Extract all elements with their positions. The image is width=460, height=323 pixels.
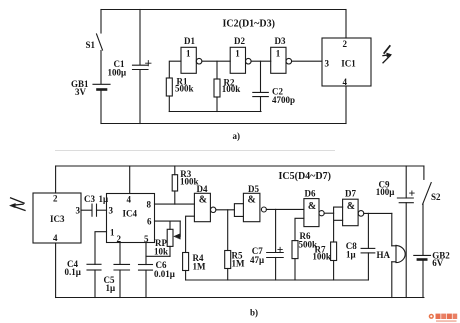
svg-text:3: 3 (325, 59, 330, 69)
svg-text:47μ: 47μ (250, 255, 264, 265)
resistor R3 (172, 166, 177, 204)
svg-text:&: & (248, 194, 256, 205)
capacitor C7 (267, 209, 284, 280)
svg-text:100k: 100k (312, 252, 331, 262)
antenna receive symbol (10, 198, 25, 211)
wire IC4 pin8 to D4 (155, 203, 195, 205)
svg-text:6: 6 (147, 217, 152, 227)
wire D2 out to D3 (251, 60, 271, 62)
inverter D1 (181, 47, 202, 73)
resistor R5 (225, 210, 231, 280)
resistor R2 (214, 61, 220, 111)
wire D1 out to D2 (202, 60, 230, 62)
svg-text:HA: HA (377, 250, 391, 260)
wire D1 input (169, 61, 181, 78)
svg-text:4: 4 (127, 195, 132, 205)
svg-text:a): a) (233, 131, 241, 141)
svg-text:10k: 10k (154, 247, 168, 257)
wire D7 out (364, 212, 392, 214)
svg-text:4: 4 (343, 77, 348, 87)
nand D6 (304, 199, 324, 227)
capacitor C3 (92, 204, 107, 216)
wire IC4 pin4 (129, 166, 131, 194)
wire inner bottom b (186, 279, 369, 281)
svg-text:0.1μ: 0.1μ (65, 267, 81, 277)
svg-text:1: 1 (110, 227, 115, 237)
nand D4 (194, 193, 216, 221)
resistor R7 (331, 222, 337, 280)
wire RP bottom jog (146, 255, 170, 257)
capacitor C2 (253, 61, 268, 111)
switch S2 (423, 166, 432, 255)
antenna transmit symbol (383, 46, 392, 63)
svg-text:D7: D7 (345, 189, 356, 199)
IC4 box (107, 194, 155, 243)
svg-text:D3: D3 (275, 36, 286, 46)
svg-text:3: 3 (76, 206, 81, 216)
svg-text:100μ: 100μ (376, 187, 395, 197)
battery GB2 (414, 255, 431, 297)
svg-text:C3: C3 (84, 194, 95, 204)
svg-text:1M: 1M (232, 259, 246, 269)
svg-text:&: & (347, 201, 355, 212)
svg-text:2: 2 (53, 194, 58, 204)
wire D3 out to IC1 pin3 (292, 60, 322, 62)
svg-text:0.01μ: 0.01μ (154, 269, 175, 279)
resistor R1 (166, 78, 172, 112)
svg-text:500k: 500k (175, 84, 194, 94)
svg-text:2: 2 (343, 39, 348, 49)
wire IC4 pin2 (119, 243, 121, 265)
svg-text:6V: 6V (432, 258, 444, 268)
capacitor C6 (139, 265, 153, 298)
potentiometer RP (167, 221, 180, 256)
svg-text:D4: D4 (197, 184, 208, 194)
wire top rail a (101, 9, 346, 11)
svg-text:D2: D2 (234, 36, 245, 46)
nand D5 (243, 193, 266, 221)
capacitor C8 (361, 213, 375, 280)
inverter D3 (271, 47, 292, 73)
svg-text:100μ: 100μ (108, 68, 127, 78)
svg-text:5: 5 (144, 234, 149, 244)
svg-text:&: & (199, 194, 207, 205)
svg-text:D5: D5 (248, 184, 259, 194)
svg-text:S1: S1 (86, 40, 96, 50)
svg-text:100k: 100k (222, 84, 241, 94)
svg-text:8: 8 (147, 200, 152, 210)
svg-text:S2: S2 (431, 192, 441, 202)
svg-text:1: 1 (235, 49, 240, 59)
svg-text:IC3: IC3 (50, 214, 65, 224)
wire IC3 pin4 (55, 243, 57, 298)
svg-text:3V: 3V (75, 87, 87, 97)
wire IC1 pin2 (345, 10, 347, 39)
wire bottom rail a (101, 123, 346, 125)
capacitor C5 (114, 264, 130, 297)
wire IC4 pin6 (155, 220, 181, 222)
svg-text:1μ: 1μ (106, 283, 116, 293)
svg-text:3: 3 (109, 206, 114, 216)
svg-text:4700p: 4700p (272, 95, 295, 105)
IC3 box (33, 193, 81, 243)
capacitor C9 (397, 166, 414, 298)
battery GB1 (93, 84, 110, 123)
capacitor C4 (87, 264, 101, 297)
svg-text:IC4: IC4 (123, 209, 138, 219)
svg-text:1M: 1M (193, 262, 207, 272)
svg-text:&: & (308, 201, 316, 212)
wire IC4 pin5 (145, 243, 147, 265)
watermark logo (429, 314, 458, 322)
wire D4 out (216, 209, 235, 211)
capacitor C1 (133, 10, 152, 124)
IC1 box (322, 38, 371, 86)
wire IC1 pin4 (345, 86, 347, 124)
svg-text:2: 2 (117, 234, 122, 244)
switch S1 (97, 34, 103, 84)
wire IC3 pin3 stub (81, 209, 92, 211)
svg-text:4: 4 (53, 233, 58, 243)
svg-text:1μ: 1μ (99, 194, 109, 204)
wire D4 lower input to R4 (186, 216, 195, 252)
node D7 input tie (334, 207, 343, 222)
wire IC3 pin2 (55, 166, 57, 193)
wire inner bottom a (169, 111, 261, 113)
node D5 input tie (234, 204, 243, 217)
svg-text:IC5(D4~D7): IC5(D4~D7) (279, 171, 331, 182)
svg-text:1: 1 (276, 49, 281, 59)
nand D7 (343, 199, 364, 226)
wire top rail b (56, 165, 424, 167)
resistor R6 (292, 241, 298, 280)
wire D6 lower input to R6 (295, 218, 304, 240)
svg-text:1: 1 (186, 49, 191, 59)
inverter D2 (230, 47, 251, 73)
resistor R4 (183, 253, 189, 281)
wire IC4 pin1 to C4 (95, 232, 107, 265)
speaker HA (392, 213, 405, 297)
scan artifact line (55, 150, 335, 152)
svg-text:IC1: IC1 (341, 59, 356, 69)
svg-text:D6: D6 (305, 189, 316, 199)
wire left branch upper (100, 10, 102, 34)
wire bottom rail b (56, 297, 424, 299)
svg-text:1μ: 1μ (346, 250, 356, 260)
svg-text:IC2(D1~D3): IC2(D1~D3) (223, 19, 275, 30)
svg-text:D1: D1 (184, 36, 195, 46)
wire D6 out (324, 212, 333, 214)
svg-text:b): b) (250, 308, 258, 318)
wire D5 out to D6 (266, 208, 304, 210)
